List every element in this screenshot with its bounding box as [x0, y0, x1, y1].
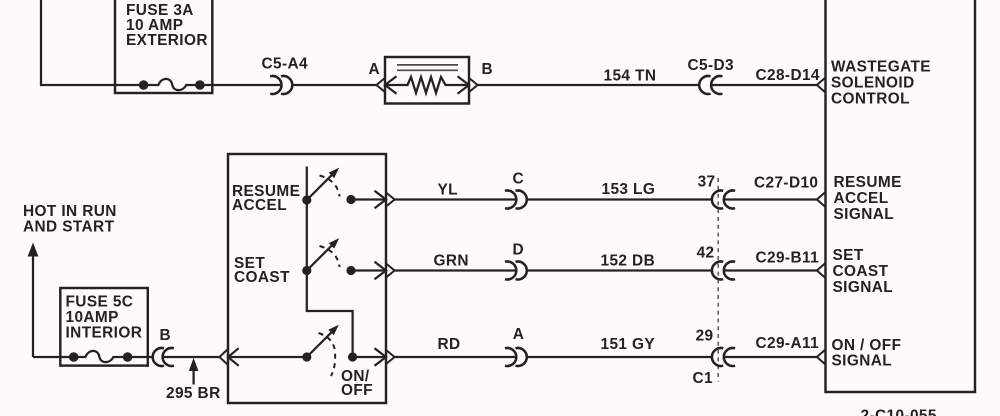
- resistor zigzag element: [385, 77, 469, 93]
- wire RD to connector A: [395, 356, 517, 358]
- pin C29-B11 triangle: [817, 263, 826, 278]
- svg-text:154 TN: 154 TN: [604, 68, 657, 85]
- wire fuse 5C to connector B: [128, 356, 153, 358]
- switch common bus wire: [307, 167, 353, 358]
- wire on/off contact to wall: [353, 356, 386, 358]
- svg-text:152 DB: 152 DB: [601, 253, 656, 270]
- wire 153 LG connector C to C1 pin 37: [527, 198, 712, 200]
- svg-text:C: C: [513, 171, 525, 188]
- resume switch travel arc: [320, 176, 340, 197]
- pin A triangle: [376, 78, 385, 92]
- svg-text:SIGNAL: SIGNAL: [834, 206, 895, 223]
- fuse box FUSE 3A 10 AMP EXTERIOR: [115, 0, 212, 93]
- connector C1 pin 42: [712, 262, 735, 280]
- svg-text:295 BR: 295 BR: [166, 385, 221, 402]
- svg-text:SOLENOID: SOLENOID: [831, 75, 915, 92]
- svg-text:HOT IN RUN: HOT IN RUN: [23, 203, 117, 220]
- connector C: [505, 191, 527, 209]
- wire 151 GY connector A to C1 pin 29: [527, 356, 712, 358]
- svg-text:D: D: [513, 242, 525, 259]
- switch box input arrowhead: [228, 348, 239, 366]
- connector C1 dashed boundary: [717, 178, 719, 382]
- wire C5-A4 to resistor pin A: [292, 84, 377, 86]
- wire C1 to module pin C27-D10: [724, 198, 817, 200]
- pin B arrowhead: [458, 76, 470, 94]
- svg-text:A: A: [369, 61, 381, 78]
- resistor core double line: [397, 65, 458, 70]
- connector D: [505, 262, 527, 280]
- wire 154 TN resistor to C5-D3: [478, 84, 700, 86]
- on/off pin triangle: [386, 350, 395, 364]
- wire 152 DB connector D to C1 pin 42: [527, 269, 712, 271]
- svg-text:ACCEL: ACCEL: [232, 197, 287, 214]
- on/off switch travel arc: [319, 333, 336, 376]
- wire resume contact to wall: [351, 198, 386, 200]
- connector A: [505, 348, 527, 366]
- arrow 295 BR pointing to wire: [189, 358, 199, 385]
- on/off switch: [302, 325, 339, 362]
- resume output contact: [346, 195, 355, 204]
- wire fuse 3A to connector C5-A4: [200, 84, 282, 86]
- on/off pin arrowhead: [375, 348, 387, 366]
- svg-text:B: B: [482, 61, 494, 78]
- wire GRN to connector D: [395, 269, 517, 271]
- cruise control switch box: [228, 154, 386, 403]
- pin C27-D10 triangle: [817, 192, 826, 207]
- resume accel switch: [302, 168, 339, 205]
- label HOT IN RUN AND START: [23, 203, 117, 236]
- svg-text:SIGNAL: SIGNAL: [833, 279, 894, 296]
- label RESUME ACCEL: [232, 183, 300, 214]
- wire C1 to module pin C29-B11: [724, 269, 817, 271]
- label FUSE 5C 10AMP INTERIOR: [66, 294, 143, 342]
- svg-text:RESUME: RESUME: [834, 174, 902, 191]
- set pin triangle: [386, 264, 395, 278]
- label RESUME ACCEL SIGNAL: [834, 174, 902, 223]
- fuse box FUSE 5C 10AMP INTERIOR: [60, 288, 148, 366]
- pin B triangle: [469, 78, 478, 92]
- controller box (right): [826, 0, 976, 392]
- connector C5-D3: [699, 76, 722, 94]
- resistor assembly box: [385, 57, 469, 104]
- wire to on/off switch: [228, 356, 307, 358]
- svg-text:OFF: OFF: [341, 382, 373, 399]
- fuse element F1 (dots and wave): [139, 79, 205, 90]
- set pin arrowhead: [375, 262, 387, 280]
- label WASTEGATE SOLENOID CONTROL: [831, 58, 931, 107]
- switch box input triangle: [219, 349, 228, 365]
- svg-text:2-C10-055: 2-C10-055: [861, 408, 937, 416]
- wire C5-D3 to module pin C28-D14: [711, 84, 817, 86]
- pin C29-A11 triangle: [817, 350, 826, 365]
- wire hot feed to fuse 5C: [33, 356, 74, 358]
- label ON/ OFF: [341, 368, 373, 399]
- svg-text:151 GY: 151 GY: [601, 336, 656, 353]
- set output contact: [346, 266, 355, 275]
- resume pin triangle: [386, 193, 395, 207]
- svg-text:SIGNAL: SIGNAL: [832, 353, 893, 370]
- connector B: [153, 348, 174, 366]
- svg-text:RD: RD: [438, 336, 461, 353]
- svg-text:C29-A11: C29-A11: [756, 335, 820, 352]
- arrow up to hot feed: [28, 243, 39, 358]
- set switch travel arc: [320, 246, 340, 267]
- wire YL to connector C: [395, 198, 517, 200]
- label ON / OFF SIGNAL: [832, 337, 902, 370]
- connector C1 pin 37: [712, 191, 735, 209]
- connector C1 pin 29: [712, 348, 735, 366]
- set coast switch: [302, 238, 339, 275]
- svg-text:COAST: COAST: [234, 269, 290, 286]
- wire 295 BR connector B to switch box: [163, 356, 220, 358]
- wire C1 to module pin C29-A11: [724, 356, 817, 358]
- svg-text:ACCEL: ACCEL: [834, 190, 889, 207]
- pin C28-D14 triangle: [817, 78, 826, 93]
- wire set contact to wall: [351, 269, 386, 271]
- svg-text:YL: YL: [438, 182, 458, 199]
- svg-text:A: A: [513, 326, 525, 343]
- svg-text:ON / OFF: ON / OFF: [832, 337, 902, 354]
- svg-text:C29-B11: C29-B11: [756, 250, 820, 267]
- resume pin arrowhead: [375, 191, 387, 209]
- svg-text:C5-A4: C5-A4: [262, 56, 309, 73]
- svg-text:C27-D10: C27-D10: [754, 175, 818, 192]
- svg-text:CONTROL: CONTROL: [831, 91, 910, 108]
- svg-text:FUSE 5C: FUSE 5C: [66, 294, 134, 311]
- svg-text:WASTEGATE: WASTEGATE: [831, 58, 931, 75]
- svg-text:C28-D14: C28-D14: [756, 67, 820, 84]
- on/off output contact: [348, 352, 357, 361]
- fuse element F2 (dots and wave): [69, 351, 133, 362]
- svg-text:29: 29: [696, 327, 714, 344]
- svg-text:42: 42: [697, 245, 715, 262]
- svg-text:37: 37: [698, 173, 716, 190]
- svg-text:COAST: COAST: [833, 263, 889, 280]
- svg-text:153 LG: 153 LG: [602, 181, 656, 198]
- svg-text:EXTERIOR: EXTERIOR: [126, 32, 208, 49]
- svg-text:AND START: AND START: [23, 219, 115, 236]
- svg-text:C1: C1: [693, 370, 714, 387]
- label FUSE 3A 10 AMP EXTERIOR: [126, 2, 208, 49]
- svg-text:SET: SET: [833, 247, 864, 264]
- svg-text:B: B: [160, 327, 172, 344]
- wire: feed from page top into fuse 3A: [41, 0, 146, 85]
- label SET COAST: [234, 255, 290, 286]
- pin A arrowhead: [385, 76, 397, 94]
- svg-text:C5-D3: C5-D3: [688, 57, 734, 74]
- svg-text:10AMP: 10AMP: [66, 309, 119, 326]
- label SET COAST SIGNAL: [833, 247, 894, 296]
- connector C5-A4: [270, 76, 292, 94]
- svg-text:INTERIOR: INTERIOR: [66, 325, 143, 342]
- svg-text:GRN: GRN: [434, 253, 469, 270]
